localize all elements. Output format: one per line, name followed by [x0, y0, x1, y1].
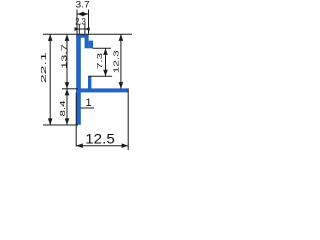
extension line flange top left	[62, 88, 78, 90]
arrow 8.4 bottom	[65, 118, 70, 125]
profile right lip	[85, 34, 89, 48]
arrow 8.4 top	[65, 89, 70, 96]
arrow 2.3 right outside	[85, 27, 90, 31]
svg-text:8.4: 8.4	[58, 101, 67, 117]
extension line leg bottom	[43, 124, 78, 126]
profile lip foot	[89, 41, 94, 49]
svg-text:12.5: 12.5	[85, 130, 115, 146]
arrow 12.5 left	[76, 143, 83, 148]
extension line lip foot bottom	[93, 47, 111, 49]
leader line thickness 1	[81, 107, 94, 109]
svg-text:12.3: 12.3	[112, 50, 121, 73]
svg-text:1: 1	[86, 97, 92, 109]
extension line top edge	[43, 33, 132, 35]
svg-text:2.3: 2.3	[75, 16, 86, 27]
dimension line 13.7	[66, 34, 68, 89]
arrow 2.3 left outside	[75, 27, 80, 31]
svg-text:3.7: 3.7	[76, 0, 90, 11]
arrow 3.7 left	[77, 12, 84, 17]
arrow 13.7 top	[65, 34, 70, 41]
arrow 12.3 bottom	[119, 82, 124, 89]
dimension line 12.5	[76, 145, 128, 147]
arrow 12.5 right	[122, 143, 129, 148]
dimension line 8.4	[66, 89, 68, 125]
extension line 3.7 left	[76, 10, 78, 34]
arrow 3.7 right	[82, 12, 89, 17]
profile top cap	[76, 34, 88, 37]
profile middle stub	[88, 76, 91, 88]
arrow 7.3 bottom	[103, 70, 108, 77]
profile flange	[76, 88, 128, 92]
svg-text:7.3: 7.3	[95, 53, 104, 69]
arrow 12.3 top	[119, 34, 124, 41]
dimension line 12.3	[120, 34, 122, 88]
dimension line 2.3	[75, 28, 90, 30]
extension line stub top	[88, 75, 112, 77]
dimension line 3.7	[77, 13, 89, 15]
extension line 3.7 right	[88, 10, 90, 34]
dimension line 7.3	[105, 48, 107, 76]
arrow 22.1 bottom	[48, 118, 53, 125]
svg-text:13.7: 13.7	[59, 44, 68, 69]
dimension line 22.1	[49, 34, 51, 125]
arrow 13.7 bottom	[65, 82, 70, 89]
extension line 2.3 left	[78, 24, 80, 34]
extension line 12.5 left	[75, 93, 77, 147]
extension line 2.3 right	[84, 24, 86, 34]
arrow 22.1 top	[48, 34, 53, 41]
svg-text:22.1: 22.1	[39, 52, 48, 83]
arrow 7.3 top	[103, 48, 108, 55]
extension line 12.5 right	[127, 88, 129, 150]
profile left wall and bottom leg	[76, 34, 81, 124]
